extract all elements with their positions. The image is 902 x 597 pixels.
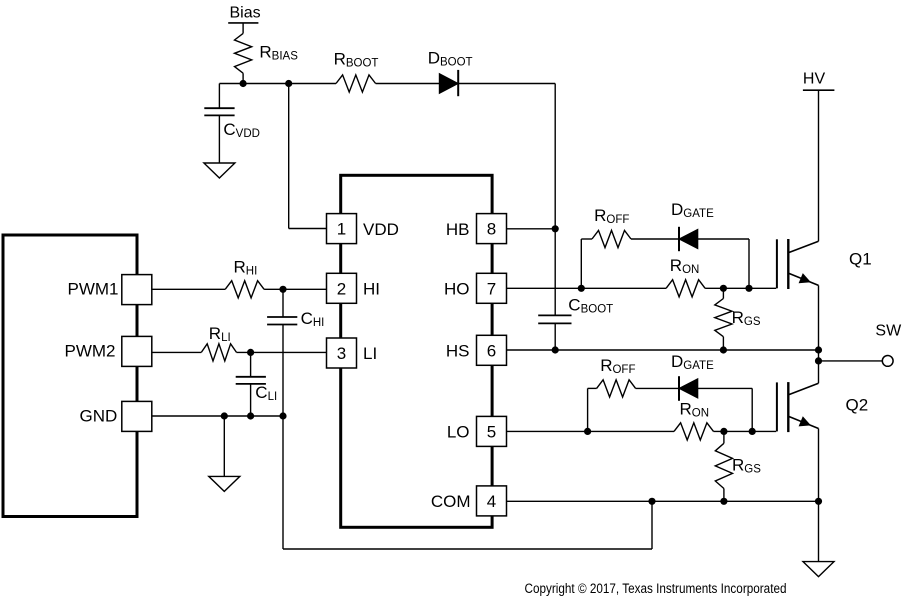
- svg-text:Bias: Bias: [230, 5, 261, 22]
- resistor R_OFF (Q2): [597, 380, 636, 397]
- label C_BOOT: [568, 296, 613, 316]
- svg-text:HV: HV: [803, 71, 826, 88]
- label PWM2: [65, 341, 116, 360]
- node HO-ROFF1: [578, 285, 585, 292]
- IC gate-driver box: [341, 175, 492, 527]
- svg-text:5: 5: [487, 423, 496, 442]
- wire ROFF1 branch up: [581, 239, 592, 288]
- terminal SW: [882, 356, 893, 367]
- wire C_VDD to ground: [218, 115, 220, 163]
- node LI-CLI: [247, 349, 254, 356]
- wire PWM2 to R_LI: [152, 351, 202, 353]
- ground C_VDD: [204, 163, 235, 178]
- wire Q1 emitter to trunk: [818, 285, 820, 350]
- wire pin8 to HB node: [507, 228, 556, 230]
- label R_ON (Q1): [670, 256, 700, 276]
- wire to ground symbol: [223, 416, 225, 476]
- node bias-cvdd: [240, 80, 247, 87]
- svg-text:LO: LO: [447, 423, 470, 442]
- wire VDD branch: [289, 84, 327, 229]
- label Q1: [849, 249, 872, 268]
- label C_HI: [301, 309, 325, 329]
- label HB: [446, 220, 470, 239]
- wire ROFF2 to DGATE2: [636, 387, 679, 389]
- wire LO row: [507, 430, 777, 432]
- node gnd-CHI: [279, 412, 286, 419]
- label R_GS (Q2): [732, 456, 761, 476]
- wire HO row: [507, 287, 777, 289]
- wire DGATE1 to gate node: [698, 239, 749, 288]
- wire R_HI to pin HI: [264, 288, 326, 290]
- svg-text:7: 7: [487, 279, 496, 298]
- copyright note: [525, 581, 787, 596]
- node HS-CBOOT: [552, 346, 559, 353]
- label COM: [431, 492, 471, 511]
- svg-text:Q1: Q1: [849, 249, 872, 268]
- wire HV to Q1 collector: [818, 90, 820, 241]
- svg-text:8: 8: [487, 220, 496, 239]
- wire C_HI to gnd row: [282, 325, 284, 417]
- wire GND row: [152, 415, 283, 417]
- ground Q2: [803, 562, 834, 577]
- label C_LI: [255, 383, 277, 403]
- wire R_LI to pin LI: [237, 351, 327, 353]
- node COM-trunk: [815, 498, 822, 505]
- capacitor C_VDD: [204, 108, 234, 115]
- controller box: [3, 235, 137, 517]
- node HB: [552, 225, 559, 232]
- wire HS row: [507, 349, 819, 351]
- pin 6 HS: [477, 335, 507, 365]
- node LO-RGS2: [720, 428, 727, 435]
- svg-text:HS: HS: [446, 342, 470, 361]
- wire ROFF2 branch up: [588, 388, 597, 431]
- wire C_VDD branch: [218, 84, 220, 109]
- pin 1 VDD: [327, 214, 357, 244]
- wire C_BOOT to HS row: [554, 323, 556, 350]
- label R_BOOT: [334, 50, 379, 70]
- label D_GATE (Q1): [671, 200, 714, 220]
- diode D_GATE (Q1): [679, 227, 698, 251]
- label R_OFF (Q2): [600, 356, 635, 376]
- svg-text:1: 1: [337, 220, 346, 239]
- wire node to C_LI: [250, 352, 252, 376]
- svg-text:Q2: Q2: [846, 396, 869, 415]
- svg-text:6: 6: [487, 341, 496, 360]
- wire HB to C_BOOT: [554, 229, 556, 316]
- wire Q2 emitter down: [818, 429, 820, 562]
- pin GND: [122, 401, 152, 431]
- resistor R_BIAS: [235, 33, 252, 73]
- label HI: [363, 280, 380, 299]
- diode D_BOOT: [439, 70, 458, 96]
- wire R_BIAS to node: [242, 73, 244, 84]
- transistor Q2: [777, 382, 819, 432]
- label PWM1: [68, 280, 119, 299]
- wire PWM1 to R_HI: [152, 288, 225, 290]
- label C_VDD: [223, 120, 260, 140]
- node LO-ROFF2: [584, 428, 591, 435]
- transistor Q1: [777, 239, 819, 289]
- pin 2 HI: [327, 273, 357, 303]
- wire C_LI to gnd row: [250, 384, 252, 416]
- label D_BOOT: [428, 49, 473, 69]
- label R_ON (Q2): [680, 400, 710, 420]
- resistor R_LI: [201, 344, 236, 361]
- node gnd-CLI: [247, 412, 254, 419]
- svg-text:2: 2: [337, 279, 346, 298]
- Bias net label: [230, 5, 261, 22]
- wire RGS2 bottom: [723, 489, 725, 502]
- svg-text:3: 3: [337, 344, 346, 363]
- svg-text:VDD: VDD: [363, 220, 399, 239]
- svg-text:LI: LI: [363, 344, 377, 363]
- HV rail bar: [803, 89, 835, 91]
- label Q2: [846, 396, 869, 415]
- node vdd-branch: [285, 80, 292, 87]
- svg-text:PWM1: PWM1: [68, 280, 119, 299]
- svg-text:Copyright © 2017, Texas Instru: Copyright © 2017, Texas Instruments Inco…: [525, 581, 787, 596]
- ground controller: [209, 476, 240, 491]
- resistor R_ON (Q2): [674, 423, 714, 440]
- label HS: [446, 342, 470, 361]
- label R_HI: [234, 257, 258, 277]
- wire DGATE2 to gate node: [698, 388, 752, 431]
- capacitor C_HI: [267, 317, 297, 325]
- label D_GATE (Q2): [671, 352, 714, 372]
- node HS-trunk: [815, 346, 822, 353]
- pin 4 COM: [477, 486, 507, 516]
- wire R_BOOT to D_BOOT: [376, 83, 440, 85]
- svg-text:HI: HI: [363, 280, 380, 299]
- wire RGS1 top: [722, 288, 724, 298]
- pin PWM1: [122, 275, 152, 305]
- svg-text:COM: COM: [431, 492, 471, 511]
- node SW: [815, 357, 822, 364]
- svg-text:4: 4: [487, 492, 496, 511]
- svg-text:SW: SW: [875, 323, 902, 340]
- node gate Q2: [749, 428, 756, 435]
- wire trunk HS to Q2: [818, 350, 820, 383]
- resistor R_BOOT: [336, 75, 376, 92]
- node HI-CHI: [279, 286, 286, 293]
- label R_BIAS: [259, 43, 298, 63]
- wire SW stub: [819, 360, 883, 362]
- label LI: [363, 344, 377, 363]
- wire gnd net to COM net: [283, 416, 652, 549]
- capacitor C_BOOT: [538, 315, 571, 323]
- svg-text:PWM2: PWM2: [65, 341, 116, 360]
- wire RGS1 bottom: [722, 337, 724, 350]
- svg-text:HB: HB: [446, 220, 470, 239]
- pin 8 HB: [477, 214, 507, 244]
- svg-text:HO: HO: [444, 280, 470, 299]
- label SW: [875, 323, 902, 340]
- wire ROFF1 to DGATE1: [631, 238, 679, 240]
- wire top rail left: [219, 83, 336, 85]
- label LO: [447, 423, 470, 442]
- pin 5 LO: [477, 416, 507, 446]
- pin 7 HO: [477, 273, 507, 303]
- wire D_BOOT to HB corner: [458, 84, 555, 229]
- Bias rail bar: [228, 22, 258, 24]
- node HO-RGS1: [720, 285, 727, 292]
- node gate Q1: [745, 285, 752, 292]
- pin 3 LI: [327, 338, 357, 368]
- resistor R_HI: [225, 281, 264, 298]
- wire COM row: [507, 500, 819, 502]
- node COM-return: [648, 498, 655, 505]
- node HS-RGS1: [720, 346, 727, 353]
- wire node to C_HI: [282, 289, 284, 317]
- resistor R_OFF (Q1): [592, 230, 631, 247]
- node COM-RGS2: [720, 498, 727, 505]
- capacitor C_LI: [236, 377, 266, 384]
- wire RGS2 top: [723, 431, 725, 443]
- node gnd-sym: [221, 412, 228, 419]
- label R_OFF (Q1): [594, 206, 629, 226]
- resistor R_GS (Q1): [715, 299, 732, 337]
- label R_LI: [209, 324, 231, 344]
- resistor R_ON (Q1): [666, 280, 705, 297]
- label VDD: [363, 220, 399, 239]
- label GND: [80, 407, 118, 426]
- HV net label: [803, 71, 826, 88]
- pin PWM2: [122, 336, 152, 366]
- label R_GS (Q1): [732, 308, 761, 328]
- svg-text:GND: GND: [80, 407, 118, 426]
- diode D_GATE (Q2): [679, 376, 698, 401]
- resistor R_GS (Q2): [715, 443, 732, 488]
- label HO: [444, 280, 470, 299]
- wire Bias to R_BIAS: [242, 23, 244, 34]
